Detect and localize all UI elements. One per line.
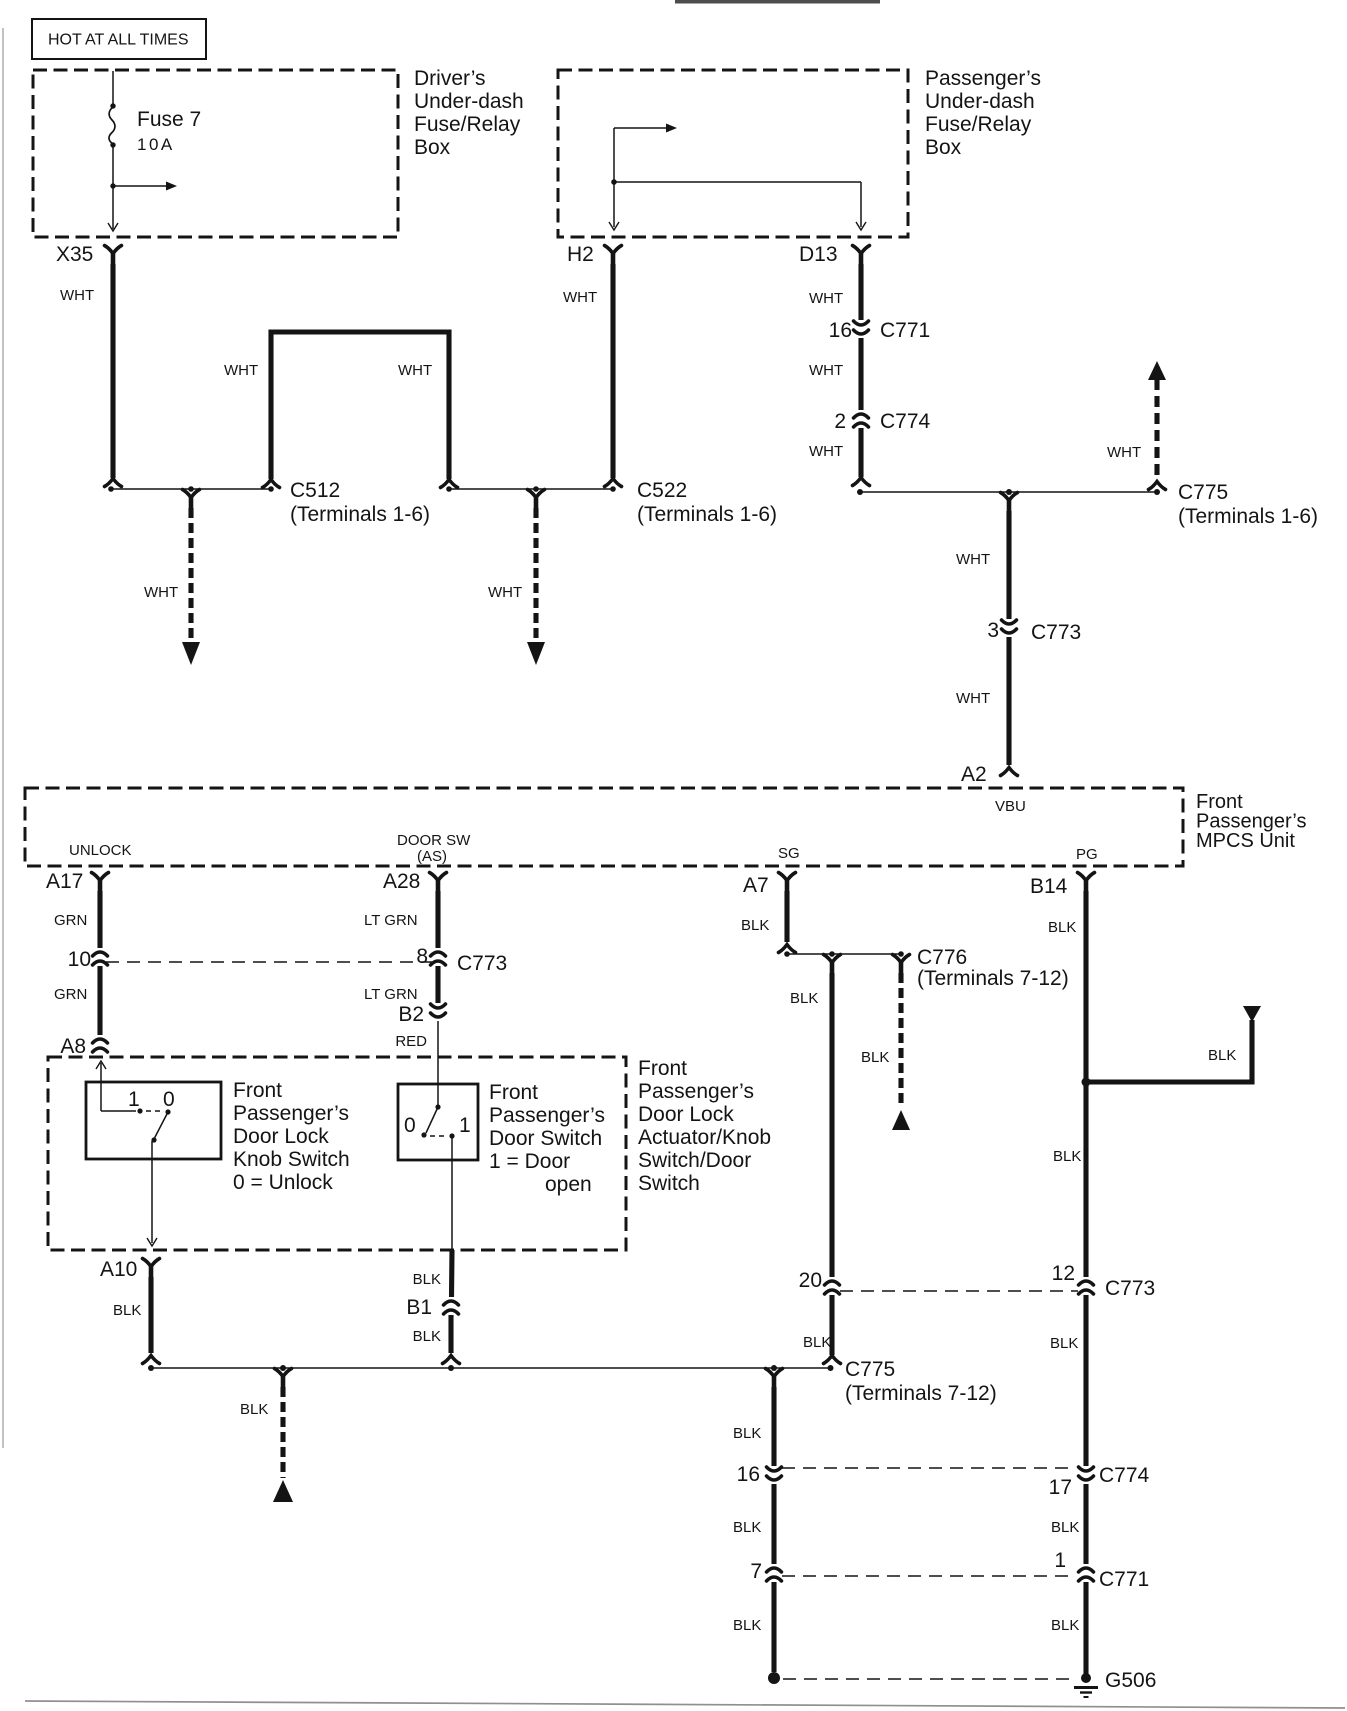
svg-text:3: 3: [987, 619, 999, 642]
svg-text:LT GRN: LT GRN: [364, 912, 418, 929]
svg-text:C775: C775: [845, 1358, 895, 1381]
svg-text:Switch: Switch: [638, 1172, 700, 1195]
svg-text:GRN: GRN: [54, 986, 87, 1003]
svg-text:Actuator/Knob: Actuator/Knob: [638, 1126, 771, 1149]
svg-text:C773: C773: [1105, 1277, 1155, 1300]
svg-text:C512: C512: [290, 479, 340, 502]
svg-text:WHT: WHT: [144, 584, 178, 601]
svg-text:WHT: WHT: [488, 584, 522, 601]
svg-text:16: 16: [829, 319, 852, 342]
svg-text:WHT: WHT: [809, 362, 843, 379]
svg-text:12: 12: [1052, 1262, 1075, 1285]
svg-text:C522: C522: [637, 479, 687, 502]
svg-text:A17: A17: [46, 870, 83, 893]
svg-text:D13: D13: [799, 243, 838, 266]
svg-text:(Terminals 7-12): (Terminals 7-12): [917, 967, 1069, 990]
svg-text:8: 8: [416, 945, 428, 968]
svg-text:A28: A28: [383, 870, 420, 893]
svg-text:G506: G506: [1105, 1669, 1156, 1692]
svg-text:B2: B2: [398, 1003, 424, 1026]
svg-text:VBU: VBU: [995, 798, 1026, 815]
svg-text:A10: A10: [100, 1258, 137, 1281]
svg-text:HOT AT ALL TIMES: HOT AT ALL TIMES: [48, 32, 189, 49]
svg-text:0 = Unlock: 0 = Unlock: [233, 1171, 333, 1194]
svg-text:WHT: WHT: [398, 362, 432, 379]
svg-text:MPCS Unit: MPCS Unit: [1196, 830, 1295, 852]
svg-text:BLK: BLK: [861, 1049, 889, 1066]
svg-text:C774: C774: [1099, 1464, 1150, 1487]
svg-text:Door Switch: Door Switch: [489, 1127, 602, 1150]
svg-text:WHT: WHT: [224, 362, 258, 379]
svg-text:C771: C771: [880, 319, 930, 342]
svg-text:17: 17: [1049, 1476, 1072, 1499]
svg-text:Knob Switch: Knob Switch: [233, 1148, 350, 1171]
svg-text:A2: A2: [961, 763, 987, 786]
svg-text:0: 0: [163, 1088, 175, 1111]
svg-text:C771: C771: [1099, 1568, 1149, 1591]
svg-text:B1: B1: [406, 1296, 432, 1319]
svg-text:BLK: BLK: [1051, 1617, 1079, 1634]
svg-text:C774: C774: [880, 410, 931, 433]
svg-text:1: 1: [1054, 1549, 1066, 1572]
svg-text:2: 2: [834, 410, 846, 433]
svg-text:BLK: BLK: [413, 1271, 441, 1288]
svg-text:Passenger’s: Passenger’s: [925, 67, 1041, 90]
svg-text:BLK: BLK: [1050, 1335, 1078, 1352]
svg-text:10A: 10A: [137, 135, 175, 154]
svg-text:Fuse/Relay: Fuse/Relay: [925, 113, 1032, 136]
svg-text:WHT: WHT: [809, 443, 843, 460]
svg-text:Front: Front: [489, 1081, 538, 1104]
svg-text:20: 20: [799, 1269, 822, 1292]
svg-text:10: 10: [68, 948, 91, 971]
svg-text:BLK: BLK: [741, 917, 769, 934]
svg-text:(Terminals 1-6): (Terminals 1-6): [637, 503, 777, 526]
svg-text:7: 7: [750, 1560, 762, 1583]
svg-text:Fuse/Relay: Fuse/Relay: [414, 113, 521, 136]
svg-text:PG: PG: [1076, 846, 1098, 863]
svg-text:WHT: WHT: [60, 287, 94, 304]
svg-text:Door Lock: Door Lock: [233, 1125, 329, 1148]
svg-text:1: 1: [128, 1088, 140, 1111]
svg-text:1 = Door: 1 = Door: [489, 1150, 570, 1173]
svg-text:Passenger’s: Passenger’s: [489, 1104, 605, 1127]
svg-text:Front: Front: [638, 1057, 687, 1080]
svg-text:GRN: GRN: [54, 912, 87, 929]
svg-text:Passenger’s: Passenger’s: [233, 1102, 349, 1125]
svg-text:(Terminals 1-6): (Terminals 1-6): [1178, 505, 1318, 528]
svg-text:0: 0: [404, 1114, 416, 1137]
svg-text:BLK: BLK: [790, 990, 818, 1007]
svg-text:H2: H2: [567, 243, 594, 266]
svg-text:C776: C776: [917, 946, 967, 969]
svg-text:LT GRN: LT GRN: [364, 986, 418, 1003]
svg-text:Door Lock: Door Lock: [638, 1103, 734, 1126]
svg-text:C773: C773: [457, 952, 507, 975]
svg-text:Front: Front: [233, 1079, 282, 1102]
svg-text:RED: RED: [395, 1033, 427, 1050]
svg-text:BLK: BLK: [803, 1334, 831, 1351]
svg-text:BLK: BLK: [1208, 1047, 1236, 1064]
svg-text:1: 1: [459, 1114, 471, 1137]
svg-text:(Terminals 1-6): (Terminals 1-6): [290, 503, 430, 526]
svg-text:BLK: BLK: [1053, 1148, 1081, 1165]
svg-text:BLK: BLK: [733, 1617, 761, 1634]
svg-text:WHT: WHT: [956, 690, 990, 707]
svg-text:open: open: [545, 1173, 592, 1196]
svg-text:Switch/Door: Switch/Door: [638, 1149, 751, 1172]
svg-text:BLK: BLK: [733, 1425, 761, 1442]
svg-text:Under-dash: Under-dash: [414, 90, 524, 113]
svg-text:BLK: BLK: [113, 1302, 141, 1319]
svg-text:DOOR SW: DOOR SW: [397, 832, 471, 849]
svg-text:WHT: WHT: [1107, 444, 1141, 461]
svg-text:SG: SG: [778, 845, 800, 862]
svg-text:BLK: BLK: [733, 1519, 761, 1536]
svg-text:BLK: BLK: [413, 1328, 441, 1345]
svg-text:Driver’s: Driver’s: [414, 67, 486, 90]
svg-text:Box: Box: [414, 136, 451, 159]
svg-text:BLK: BLK: [1051, 1519, 1079, 1536]
svg-text:B14: B14: [1030, 875, 1068, 898]
svg-text:A8: A8: [60, 1035, 86, 1058]
svg-text:BLK: BLK: [240, 1401, 268, 1418]
svg-text:WHT: WHT: [956, 551, 990, 568]
svg-text:X35: X35: [56, 243, 93, 266]
svg-text:(Terminals 7-12): (Terminals 7-12): [845, 1382, 997, 1405]
svg-text:Fuse 7: Fuse 7: [137, 108, 201, 131]
svg-text:(AS): (AS): [417, 848, 447, 865]
svg-text:A7: A7: [743, 874, 769, 897]
svg-text:WHT: WHT: [563, 289, 597, 306]
svg-text:UNLOCK: UNLOCK: [69, 842, 132, 859]
svg-text:BLK: BLK: [1048, 919, 1076, 936]
svg-text:16: 16: [737, 1463, 760, 1486]
svg-text:C775: C775: [1178, 481, 1228, 504]
svg-text:WHT: WHT: [809, 290, 843, 307]
svg-text:Passenger’s: Passenger’s: [638, 1080, 754, 1103]
svg-text:Under-dash: Under-dash: [925, 90, 1035, 113]
svg-text:Box: Box: [925, 136, 962, 159]
svg-text:C773: C773: [1031, 621, 1081, 644]
